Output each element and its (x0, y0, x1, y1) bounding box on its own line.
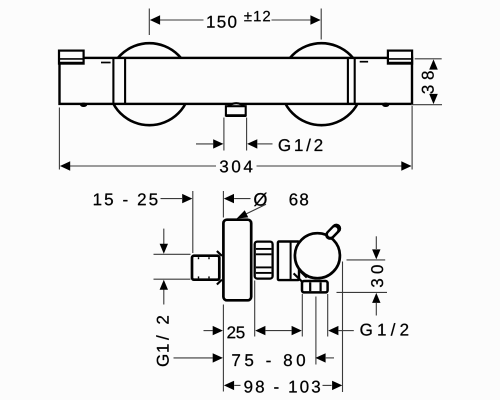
escutcheon disc side (223, 220, 251, 301)
row 75 - 80 (174, 357, 213, 359)
mixer bar body (60, 58, 413, 104)
dim 304 extension lines (58, 108, 60, 170)
label G1/2 front (279, 139, 290, 151)
right handle cap (388, 51, 412, 64)
label Ø 68 (254, 193, 267, 206)
label 38 (rotated) (422, 85, 434, 93)
right body tick (360, 61, 368, 63)
handle knob circle (295, 233, 340, 278)
outlet stub front (226, 106, 246, 115)
right handle screw (382, 103, 389, 107)
dim G1/2 front extension lines (223, 118, 225, 151)
stub thread ticks (198, 257, 200, 259)
handle lever tab (330, 229, 336, 236)
hex outlet nut (302, 281, 328, 292)
escutcheon circle right (281, 43, 363, 125)
left handle screw (80, 103, 87, 107)
right handle groove (347, 58, 349, 104)
left body tick (101, 62, 111, 64)
label 15 - 25 (94, 194, 101, 206)
stub OD arrows (163, 229, 165, 246)
step diagonals under circle (294, 273, 303, 281)
label 150 (207, 16, 214, 28)
label 30 (rotated) (371, 279, 383, 287)
dim 304 line + arrows (61, 165, 217, 167)
dim 38 arrows (429, 59, 438, 69)
stub cone diagonal top (217, 251, 222, 256)
Ø68 leader (240, 204, 266, 217)
label 304 (220, 160, 228, 172)
label G1/2 left (rotated) (157, 355, 169, 366)
dim G1/2 front arrows (196, 143, 213, 145)
left handle cap (59, 51, 84, 64)
stub OD extension lines (154, 253, 191, 255)
dim 30 arrows (375, 236, 377, 249)
outlet dome arc (227, 103, 246, 107)
dim 38 extension lines (415, 58, 442, 60)
label ±12 (244, 12, 251, 21)
left handle groove (112, 58, 114, 104)
dim 30 extension lines (347, 259, 386, 261)
row 98 - 103 (224, 381, 234, 390)
dim 15-25 lines (161, 198, 183, 200)
bottom extension lines (222, 305, 224, 392)
dim 150 line + arrows (151, 19, 204, 21)
escutcheon circle left (108, 43, 190, 125)
knurled connector nut (255, 242, 273, 279)
dim 150 ±12 extension lines (148, 9, 150, 36)
stub cone diagonal bottom (217, 280, 222, 285)
row 25 + G1/2 right (204, 330, 213, 332)
valve body (278, 242, 299, 281)
wall pipe stub (192, 256, 219, 280)
